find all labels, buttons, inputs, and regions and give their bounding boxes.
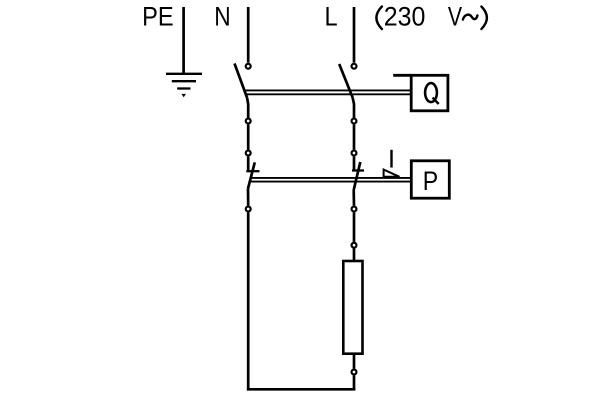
wire load to terminal bbox=[353, 354, 356, 369]
wire N between Q and P bbox=[247, 124, 250, 149]
wire PE bbox=[182, 7, 185, 74]
wire P1 N-pole blade to contact bbox=[247, 189, 250, 206]
actuator Q box bbox=[393, 75, 448, 111]
wire N blade to contact bbox=[247, 98, 248, 119]
wire P1 N-pole fixed lead bbox=[247, 156, 250, 171]
svg-text:PE: PE bbox=[142, 2, 174, 32]
actuator P box bbox=[411, 161, 449, 198]
switch P1 L-pole bottom contact bbox=[352, 207, 357, 212]
switch P1 N-pole blade bbox=[248, 162, 255, 188]
pressure actuator flag bbox=[384, 170, 400, 177]
switch P1 N-pole bottom contact bbox=[246, 207, 251, 212]
wire L to load terminal bbox=[353, 212, 356, 242]
wire N upper bbox=[247, 7, 250, 63]
svg-text:N: N bbox=[214, 2, 230, 32]
switch Q1 L-pole bottom contact bbox=[352, 119, 357, 124]
load E1 heating element bbox=[343, 261, 362, 354]
wire N lower bbox=[247, 212, 250, 390]
label Q bbox=[425, 83, 439, 104]
switch Q1 N-pole top contact bbox=[246, 64, 251, 69]
switch Q1 L-pole blade bbox=[339, 64, 352, 98]
wire P1 L-pole blade to contact bbox=[352, 190, 355, 206]
switch P1 N-pole top contact bbox=[246, 151, 251, 156]
wire P1 L-pole fixed lead bbox=[353, 156, 356, 170]
wire terminal to load bbox=[353, 249, 356, 262]
svg-text:V: V bbox=[448, 2, 462, 32]
mechanical linkage P bbox=[250, 178, 411, 182]
wire bottom return bbox=[247, 388, 355, 391]
voltage label (230 V~) bbox=[376, 2, 487, 32]
pressure actuator link line bbox=[390, 150, 392, 168]
switch Q1 N-pole bottom contact bbox=[246, 119, 251, 124]
switch P1 L-pole blade bbox=[354, 162, 361, 190]
switch Q1 L-pole top contact bbox=[352, 64, 357, 69]
svg-text:230: 230 bbox=[384, 2, 426, 32]
mechanical linkage Q bbox=[244, 90, 411, 94]
switch P1 L-pole top contact bbox=[352, 151, 357, 156]
svg-text:P: P bbox=[423, 166, 438, 196]
terminal X2 bbox=[352, 370, 357, 375]
switch Q1 N-pole blade bbox=[235, 64, 248, 98]
wire L blade to contact bbox=[353, 98, 354, 119]
switch P1 L-pole contact seat bbox=[352, 169, 364, 171]
switch P1 N-pole contact seat bbox=[246, 170, 259, 172]
wire L below load bbox=[353, 375, 356, 390]
wire L upper bbox=[353, 7, 356, 63]
svg-text:L: L bbox=[325, 2, 338, 32]
ground bbox=[166, 74, 202, 97]
wire L between Q and P bbox=[353, 124, 356, 149]
terminal X1 bbox=[352, 243, 357, 248]
